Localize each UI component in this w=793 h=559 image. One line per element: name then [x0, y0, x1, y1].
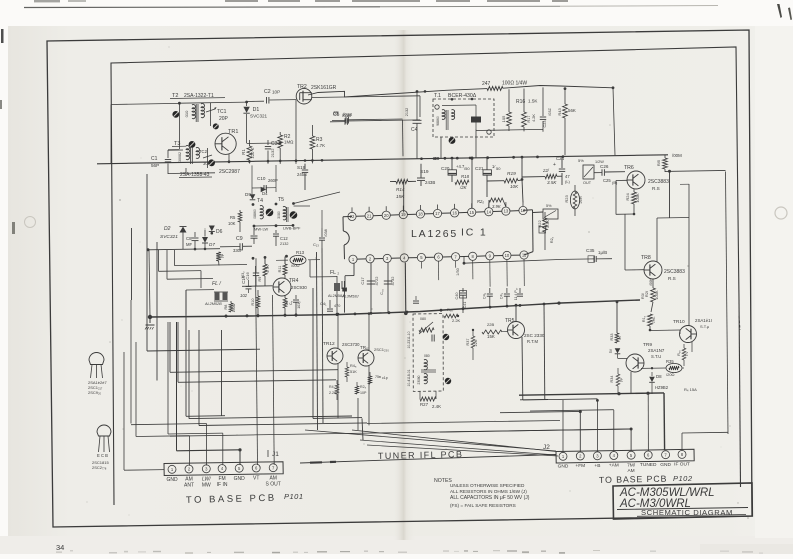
- TR5 collector to bus: [515, 305, 517, 322]
- TR2 drain wire right: [312, 96, 420, 98]
- svg-text:26H: 26H: [578, 196, 583, 203]
- mesh horizontal y418: [313, 417, 362, 420]
- svg-text:J1: J1: [272, 451, 279, 458]
- svg-text:D8: D8: [656, 374, 662, 379]
- capacitor C3: [267, 140, 269, 145]
- J1 pin 3: [202, 465, 210, 473]
- svg-text:10P: 10P: [360, 391, 367, 395]
- connector J1 box: [164, 462, 283, 476]
- svg-text:102: 102: [240, 293, 248, 298]
- svg-text:TO BASE PCB: TO BASE PCB: [599, 474, 668, 485]
- resistor R44 2.2K: [336, 380, 338, 384]
- IC pin 5: [417, 253, 425, 261]
- svg-text:C24: C24: [556, 156, 565, 161]
- svg-text:103₂: 103₂: [241, 271, 245, 279]
- mesh horizontal y416: [186, 415, 225, 418]
- svg-text:IF IN: IF IN: [217, 482, 228, 488]
- svg-text:TUNED: TUNED: [640, 462, 657, 468]
- wire TR9 collector down to B line: [630, 372, 632, 394]
- wire J2 pin1 drop: [562, 400, 564, 453]
- staircase S1: [158, 250, 160, 271]
- svg-text:/03Z: /03Z: [548, 108, 552, 116]
- svg-text:51K: 51K: [350, 370, 357, 374]
- svg-text:AM: AM: [627, 468, 634, 474]
- svg-text:2.2K: 2.2K: [452, 318, 461, 323]
- svg-text:IF OUT: IF OUT: [674, 462, 690, 468]
- bold B+ line: [519, 393, 664, 395]
- svg-text:11: 11: [522, 253, 527, 258]
- title block box: [613, 483, 752, 519]
- svg-text:R23: R23: [564, 195, 569, 203]
- svg-text:UNLESS OTHERWISE SPECIFIED: UNLESS OTHERWISE SPECIFIED: [450, 483, 525, 488]
- svg-text:T.V: T.V: [685, 351, 689, 357]
- resistor R8 140ohm: [230, 301, 232, 303]
- svg-text:3080: 3080: [277, 211, 281, 219]
- svg-text:15K: 15K: [487, 334, 495, 339]
- svg-text:17: 17: [435, 211, 440, 216]
- svg-text:C23: C23: [543, 121, 547, 128]
- capacitor C2 10P: [247, 100, 264, 102]
- resistor R2 1M: [279, 132, 281, 135]
- wire R15 to vertical right: [665, 170, 726, 171]
- staircase S3: [174, 250, 176, 266]
- wire TR01 collector to bus: [368, 314, 370, 350]
- zener D8 HZ9B2: [651, 372, 653, 376]
- wire pin2 down to bus: [370, 263, 372, 314]
- IC pin 3: [383, 254, 391, 262]
- transistor package TO-92 lower: [97, 425, 111, 436]
- T3 core slug upper: [189, 141, 196, 148]
- svg-text:10P: 10P: [272, 90, 280, 95]
- wire J1 pin4 route: [167, 322, 169, 434]
- capacitor C15 103Z: [295, 295, 297, 299]
- wire J1 pin7 long vertical: [273, 295, 275, 465]
- resistor R14 15K horizontal: [396, 179, 408, 183]
- resistor R33 1K: [616, 302, 618, 333]
- resistor R5 10K: [239, 210, 241, 212]
- mesh vertical e: [198, 330, 200, 426]
- wire J2 pin3 drop: [596, 399, 598, 452]
- wire J1 pin6 long vertical: [256, 266, 258, 465]
- wire pin3 down to bus: [387, 263, 389, 314]
- TR8 collector to TR6 vertical link: [688, 184, 690, 218]
- svg-text:2SC3883: 2SC3883: [664, 269, 685, 275]
- svg-text:R₄ 15А: R₄ 15А: [684, 387, 697, 392]
- svg-text:56K: 56K: [568, 108, 576, 113]
- svg-text:2SC9₂₀: 2SC9₂₀: [88, 390, 102, 395]
- svg-text:C4₃: C4₃: [500, 292, 504, 299]
- svg-text:/K: /K: [618, 336, 622, 340]
- svg-text:4.7K: 4.7K: [316, 143, 325, 148]
- trimmer TC2: [207, 148, 209, 168]
- svg-text:1.5K: 1.5K: [528, 99, 538, 104]
- TR4 base line from left: [242, 285, 273, 288]
- svg-text:220 K: 220 K: [250, 147, 255, 158]
- TR1 emitter to bus: [228, 154, 230, 164]
- J1 pin 6: [252, 464, 260, 472]
- svg-text:010: 010: [184, 110, 189, 117]
- junctions on gnd bus: [225, 315, 228, 318]
- svg-text:T5: T5: [278, 197, 284, 203]
- svg-text:30082: 30082: [178, 152, 182, 162]
- svg-text:MW: MW: [202, 483, 211, 489]
- wire C13 to bus: [321, 210, 323, 228]
- svg-text:AL3M58J: AL3M58J: [341, 294, 358, 299]
- AM OSC coil dashed box: [413, 314, 443, 392]
- IC pin 15: [468, 208, 476, 216]
- svg-text:C16: C16: [245, 272, 250, 280]
- capacitor C47 under pin9: [506, 288, 508, 293]
- svg-text:10K: 10K: [228, 221, 236, 226]
- svg-text:LA1265: LA1265: [411, 228, 458, 240]
- svg-text:P102: P102: [673, 474, 693, 483]
- IC pin 19: [399, 211, 407, 219]
- svg-text:R1: R1: [241, 149, 246, 155]
- IC pin 11: [520, 251, 528, 259]
- wire J2 pin6 drop: [647, 393, 649, 451]
- svg-text:+B: +B: [594, 463, 600, 469]
- svg-text:4732: 4732: [390, 276, 395, 286]
- wires T5 to right: [294, 192, 341, 204]
- IC pin 9: [486, 252, 494, 260]
- capacitor C16 103Z: [255, 258, 257, 272]
- svg-text:75в: 75в: [375, 375, 381, 379]
- connector J2 box: [556, 449, 694, 463]
- svg-text:22/: 22/: [542, 168, 550, 173]
- transistor TR12 2SC3730: [327, 348, 343, 364]
- svg-text:4722: 4722: [374, 276, 379, 286]
- resistor R45 10P: [356, 382, 358, 386]
- svg-text:C8: C8: [186, 236, 192, 241]
- resistor R17 4.2K: [523, 89, 525, 113]
- transformer T1 BCER-430A dashed box: [433, 99, 494, 137]
- svg-text:080: 080: [424, 354, 430, 358]
- main ground bus: [150, 300, 640, 317]
- wire TR6 base left: [616, 179, 627, 181]
- wire C5 down to bus: [402, 120, 405, 156]
- routing horizontal y399: [520, 398, 548, 400]
- svg-text:22: 22: [350, 214, 355, 219]
- resistor R21 100K below TR8: [652, 279, 654, 288]
- svg-text:TR8: TR8: [641, 255, 651, 261]
- wire TR12 collector to bus: [337, 314, 339, 348]
- svg-text:C26: C26: [600, 164, 609, 169]
- left mesh vertical a: [146, 174, 148, 351]
- transistor TR10 2SA1J7: [680, 326, 697, 343]
- svg-text:FL /: FL /: [212, 281, 221, 287]
- svg-text:C4₁: C4₁: [320, 301, 327, 306]
- svg-text:ANT: ANT: [184, 483, 194, 489]
- svg-text:D6: D6: [216, 229, 223, 235]
- left edge tick marks: [1, 29, 4, 43]
- svg-text:16: 16: [452, 211, 457, 216]
- svg-text:+: +: [553, 162, 556, 168]
- svg-text:C25: C25: [603, 178, 611, 183]
- svg-text:T4: T4: [257, 198, 263, 204]
- svg-text:2SC1₂₃₀: 2SC1₂₃₀: [374, 347, 389, 352]
- svg-text:TC2: TC2: [199, 149, 208, 154]
- left mesh vertical a2: [131, 228, 133, 300]
- svg-text:/00K: /00K: [649, 278, 653, 286]
- IC pin 21: [365, 212, 373, 220]
- left mesh vertical b2: [177, 322, 179, 382]
- transistor TR9 2SA1N7: [626, 354, 644, 372]
- J2 pin 8: [678, 450, 686, 458]
- svg-text:330P: 330P: [233, 248, 243, 253]
- svg-text:TR12: TR12: [323, 341, 335, 347]
- svg-text:13: 13: [504, 209, 509, 214]
- svg-text:R10: R10: [251, 299, 255, 306]
- svg-text:MF: MF: [186, 242, 192, 247]
- J2 pin 4: [610, 452, 618, 460]
- svg-text:SVC321: SVC321: [250, 114, 268, 119]
- left mesh vertical a3: [169, 322, 171, 372]
- svg-text:R27: R27: [420, 402, 429, 407]
- svg-text:D2: D2: [164, 226, 171, 232]
- resistor R37 22K: [472, 330, 474, 336]
- svg-text:R.T.M: R.T.M: [527, 339, 538, 344]
- wire J1 pin1 route: [123, 352, 125, 470]
- svg-text:R3/: R3/: [641, 292, 645, 299]
- IC pin 4: [400, 254, 408, 262]
- svg-text:TR10: TR10: [673, 319, 685, 325]
- svg-text:5V: 5V: [609, 348, 613, 353]
- IC pin 10: [503, 251, 511, 259]
- svg-text:243B: 243B: [425, 180, 435, 185]
- ground symbol main: [148, 315, 152, 319]
- svg-text:R13: R13: [296, 250, 305, 255]
- svg-text:SVC321: SVC321: [160, 234, 178, 240]
- svg-text:D7: D7: [209, 242, 215, 247]
- svg-text:D9: D9: [245, 192, 251, 197]
- svg-text:TC1: TC1: [217, 109, 227, 115]
- wire J2 pin7 GND bold drop: [663, 393, 666, 450]
- capacitor C24 47uF: [561, 157, 563, 168]
- svg-text:C40: C40: [455, 293, 459, 300]
- transformer T5 winding: [283, 207, 286, 220]
- IC pin 22: [348, 212, 356, 220]
- IC U1 outline left edge with notch: [342, 217, 344, 231]
- mesh long horizontal y421: [367, 421, 560, 424]
- filter box near pin12: [543, 209, 558, 219]
- transformer T4 winding: [260, 206, 263, 219]
- resistor R27 2.4K: [420, 397, 436, 401]
- svg-text:TR6: TR6: [624, 165, 634, 171]
- svg-text:TR1: TR1: [228, 129, 238, 135]
- svg-text:E C B: E C B: [97, 453, 108, 458]
- svg-text:19: 19: [401, 212, 406, 217]
- svg-text:3.9K: 3.9K: [492, 204, 501, 209]
- left hole punch: [25, 217, 36, 228]
- wire box outputs down: [440, 137, 442, 158]
- svg-text:C2: C2: [264, 89, 271, 95]
- wire junction down to TR8: [624, 214, 626, 270]
- junction dots T4 T5: [252, 203, 255, 206]
- svg-text:470: 470: [334, 304, 340, 308]
- svg-text:R2₉: R2₉: [360, 385, 367, 389]
- diode D7: [204, 230, 206, 237]
- center fold crease: [392, 30, 418, 540]
- SW 10.7M OUT box: [583, 165, 594, 179]
- T5 core slug: [290, 211, 298, 219]
- T3 core slug lower: [208, 159, 215, 166]
- svg-text:100K: 100K: [635, 193, 640, 203]
- main supply bus: [97, 155, 668, 164]
- svg-text:R24: R24: [625, 193, 630, 201]
- wire R19 right junction: [521, 178, 524, 181]
- T1 internal cap black: [471, 117, 481, 123]
- wire left inner to T2: [111, 103, 179, 104]
- svg-text:1/50: 1/50: [456, 268, 460, 275]
- svg-text:C12: C12: [280, 236, 288, 241]
- svg-text:/018: /018: [343, 112, 352, 117]
- OSC core slug 2: [445, 378, 451, 384]
- wire T2 top to D1 C2: [179, 102, 246, 103]
- svg-text:2SA1N7: 2SA1N7: [648, 348, 665, 353]
- J1 pin 4: [218, 465, 226, 473]
- svg-text:20: 20: [384, 213, 389, 218]
- mesh horizontal y351: [147, 349, 260, 351]
- svg-text:TR₀₁: TR₀₁: [360, 345, 370, 350]
- svg-text:2SK161GR: 2SK161GR: [311, 85, 337, 91]
- resistor R5b: [216, 252, 221, 261]
- svg-text:22B: 22B: [487, 322, 494, 327]
- wire T3 bottom to bus: [185, 168, 187, 173]
- svg-text:3.5K: 3.5K: [547, 180, 557, 185]
- svg-text:C4: C4: [411, 127, 418, 133]
- svg-text:2SC3883: 2SC3883: [648, 179, 669, 185]
- OSC cap: [431, 335, 433, 342]
- wire C10 up to bus: [251, 165, 253, 188]
- wire TR6 emitter R24: [633, 189, 635, 192]
- svg-text:ALL RESISTORS IN OHMS 1/6W (J): ALL RESISTORS IN OHMS 1/6W (J): [450, 489, 527, 494]
- IC pin 2: [366, 255, 374, 263]
- staircase S2: [166, 250, 168, 279]
- IC pin 14: [485, 208, 493, 216]
- resistor R34: [617, 368, 619, 374]
- TC1 core slug: [213, 123, 219, 129]
- svg-text:15: 15: [469, 210, 474, 215]
- svg-text:+AM: +AM: [609, 463, 619, 469]
- svg-text:4.2K: 4.2K: [532, 114, 536, 122]
- svg-text:R₃₆: R₃₆: [677, 350, 681, 356]
- mesh horizontal y382: [178, 380, 336, 383]
- svg-text:18: 18: [418, 212, 423, 217]
- IC pin 12: [519, 206, 527, 214]
- wire TR10 base from R32: [650, 329, 680, 332]
- resistor R32 below: [648, 314, 653, 326]
- wire pin4 bold down to bus: [404, 263, 407, 314]
- capacitor C23 103Z: [542, 87, 544, 116]
- svg-text:IC 1: IC 1: [461, 227, 487, 239]
- svg-text:2SC 2330: 2SC 2330: [524, 333, 545, 338]
- OSC winding lower: [424, 360, 427, 370]
- svg-text:245B: 245B: [297, 172, 307, 177]
- IC bottom pin drop wires right half: [420, 262, 422, 269]
- J2 pin 7: [662, 451, 670, 459]
- svg-text:2132: 2132: [280, 242, 288, 246]
- svg-text:34: 34: [56, 543, 64, 552]
- long diagonal to J2 a: [352, 430, 556, 452]
- IC pin 16: [451, 209, 459, 217]
- wire pin1 L to FL3: [353, 263, 355, 275]
- svg-text:R4₈: R4₈: [350, 364, 357, 368]
- wire R16 R17 C23 bottom rail: [476, 129, 543, 130]
- svg-text:/00Ω: /00Ω: [291, 263, 300, 268]
- svg-text:100Ω 1/4W: 100Ω 1/4W: [502, 81, 527, 87]
- wire top feed down at 613: [613, 88, 615, 156]
- mesh vertical x362 down: [362, 418, 363, 440]
- svg-text:5%: 5%: [578, 158, 584, 163]
- svg-text:1μ/B: 1μ/B: [598, 250, 607, 255]
- svg-text:080: 080: [420, 317, 426, 321]
- long diagonal to J2 b: [367, 445, 558, 456]
- J2 pin 2: [576, 452, 584, 460]
- svg-text:AL2M52B: AL2M52B: [204, 302, 222, 306]
- top left smudges: [34, 0, 60, 2]
- resistor R2 3.5K right: [545, 174, 557, 178]
- TR8 collector up: [656, 218, 658, 262]
- svg-text:D1: D1: [253, 107, 260, 113]
- wire D1 R2 junction: [247, 142, 281, 145]
- T1 core slug: [449, 137, 456, 144]
- svg-text:C1: C1: [151, 156, 158, 162]
- svg-text:105: 105: [501, 115, 506, 122]
- outer sheet frame: [47, 30, 752, 527]
- svg-text:56P: 56P: [151, 163, 159, 168]
- T4 core slug: [266, 209, 274, 217]
- svg-text:R2₂: R2₂: [550, 236, 554, 243]
- TR4 emitter resistor 1K: [284, 295, 286, 298]
- IC pin 6: [434, 253, 442, 261]
- long diagonals into J2: [305, 430, 556, 451]
- capacitor C4: [416, 92, 418, 121]
- transistor TR1 2SC2987: [215, 133, 236, 154]
- svg-text:260P: 260P: [268, 178, 278, 183]
- wire pin9 junction to C35: [463, 262, 466, 265]
- transistor TR2 2SK161GR FET: [296, 88, 312, 104]
- bottom right gray patch: [700, 544, 793, 554]
- J1 pin 2: [185, 465, 193, 473]
- svg-text:10-2311-10: 10-2311-10: [407, 331, 411, 348]
- transformer T2: [178, 102, 181, 105]
- svg-text:10K: 10K: [510, 184, 519, 189]
- right hole punch: [775, 207, 787, 219]
- mesh vertical TR12 down: [337, 364, 339, 418]
- diode D4: [261, 187, 266, 193]
- svg-text:R34: R34: [610, 376, 614, 383]
- svg-text:2SC2₇₇₈: 2SC2₇₇₈: [92, 465, 107, 470]
- svg-text:OUT: OUT: [583, 181, 592, 185]
- svg-text:4.7K: 4.7K: [266, 265, 270, 273]
- paper speckles: [371, 308, 373, 310]
- svg-text:65: 65: [333, 111, 339, 117]
- svg-text:HZ9B2: HZ9B2: [655, 385, 669, 390]
- IC pin 13: [502, 207, 510, 215]
- svg-text:10: 10: [505, 253, 510, 258]
- IC pin 7: [452, 253, 460, 261]
- svg-text:14: 14: [486, 209, 491, 214]
- wire J2 pin8 IF OUT: [681, 433, 683, 451]
- svg-text:TR4: TR4: [289, 278, 299, 284]
- resistor R22 3.3K right of IC: [544, 212, 546, 218]
- svg-text:103₂: 103₂: [297, 301, 301, 309]
- diode D1 SVC321: [245, 101, 248, 104]
- OSC diagonal coil: [419, 328, 434, 332]
- svg-text:/00M: /00M: [672, 153, 682, 158]
- diode D5: [615, 348, 621, 353]
- svg-text:VT: VT: [253, 476, 259, 482]
